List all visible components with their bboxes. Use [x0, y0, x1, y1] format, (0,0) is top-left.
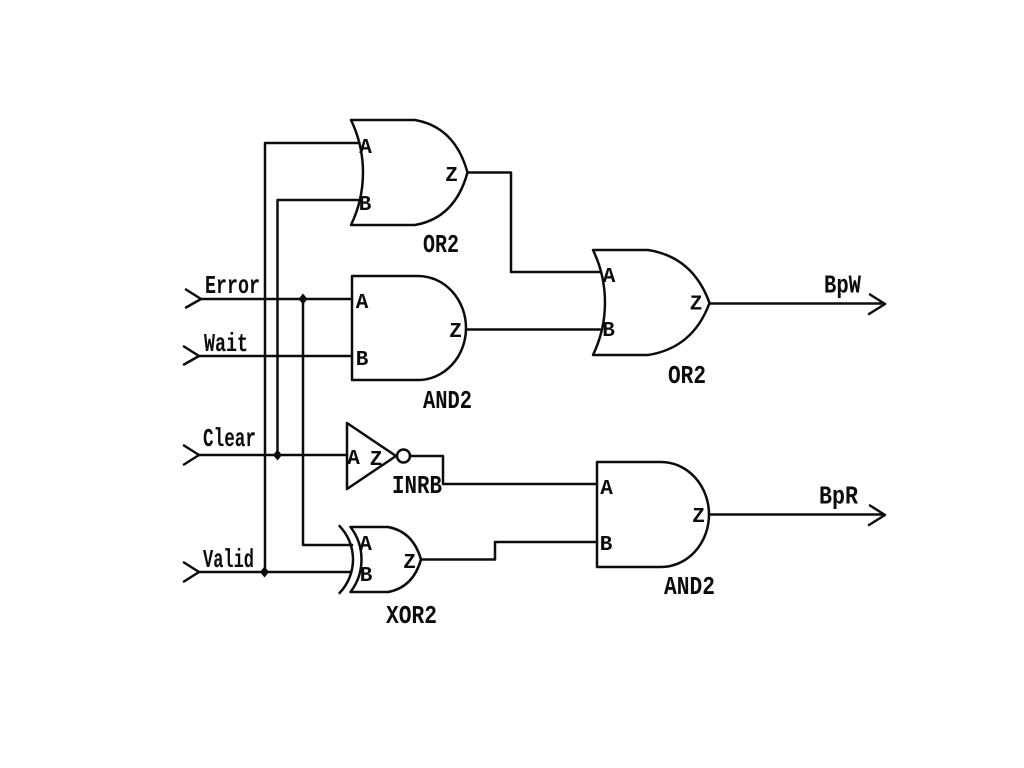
wire OR2 top Z to OR2 right A — [468, 173, 600, 273]
junction dot Clear branch — [273, 450, 282, 461]
output arrow BpW — [869, 295, 885, 315]
wire Wait — [199, 355, 352, 358]
wire BpR output — [709, 513, 884, 516]
wire XOR2 Z to AND2 right B — [421, 542, 597, 560]
input port arrow Valid — [184, 563, 199, 582]
output arrow BpR — [869, 506, 885, 526]
svg-text:B: B — [602, 320, 615, 343]
inverter U4 INRB — [347, 423, 396, 489]
wire Error — [201, 298, 352, 301]
wire AND2 left Z to OR2 right B — [466, 328, 600, 331]
svg-text:OR2: OR2 — [423, 230, 459, 260]
wire Clear to OR2 top B — [278, 200, 359, 455]
xor-gate U5 XOR2 input curve — [340, 526, 354, 593]
wire INRB Z to AND2 right A — [410, 456, 597, 484]
wire Valid to OR2 top A — [265, 143, 358, 572]
inverter bubble — [397, 450, 410, 463]
svg-text:A: A — [347, 448, 360, 471]
svg-text:Clear: Clear — [203, 424, 256, 454]
svg-text:Z: Z — [449, 321, 462, 344]
svg-text:AND2: AND2 — [664, 572, 715, 602]
or-gate U3 OR2 right — [593, 250, 710, 355]
svg-text:XOR2: XOR2 — [386, 601, 437, 631]
svg-text:Z: Z — [445, 165, 458, 188]
and-gate U2 AND2 left — [352, 276, 466, 380]
svg-text:B: B — [359, 194, 372, 217]
svg-text:B: B — [356, 349, 369, 372]
wire Clear — [199, 454, 347, 457]
svg-text:OR2: OR2 — [668, 361, 706, 391]
svg-text:Z: Z — [403, 552, 416, 575]
or-gate U1 OR2 top — [351, 120, 468, 225]
svg-text:AND2: AND2 — [423, 386, 472, 416]
xor-gate U5 XOR2 body — [351, 527, 422, 592]
junction dot Error branch — [299, 294, 308, 305]
wire Error to XOR2 A — [303, 299, 352, 545]
svg-text:A: A — [603, 266, 616, 289]
wire Valid — [199, 571, 351, 574]
input port arrow Error — [186, 290, 201, 308]
input port arrow Clear — [184, 446, 199, 465]
and-gate U6 AND2 right — [597, 462, 709, 567]
svg-text:Error: Error — [205, 271, 260, 301]
svg-text:BpW: BpW — [824, 271, 861, 301]
svg-text:A: A — [359, 534, 372, 557]
svg-text:Z: Z — [690, 294, 703, 317]
svg-text:BpR: BpR — [819, 482, 858, 512]
svg-text:A: A — [600, 478, 613, 501]
svg-text:Z: Z — [692, 506, 705, 529]
svg-text:A: A — [356, 292, 369, 315]
svg-text:Wait: Wait — [204, 329, 248, 359]
junction dot Valid branch — [260, 567, 269, 578]
svg-text:Valid: Valid — [203, 545, 254, 575]
svg-text:INRB: INRB — [392, 471, 442, 501]
input port arrow Wait — [184, 347, 199, 365]
svg-text:Z: Z — [370, 449, 383, 472]
svg-text:A: A — [359, 137, 372, 160]
wire BpW output — [710, 302, 884, 305]
svg-text:B: B — [360, 565, 373, 588]
svg-text:B: B — [600, 534, 613, 557]
